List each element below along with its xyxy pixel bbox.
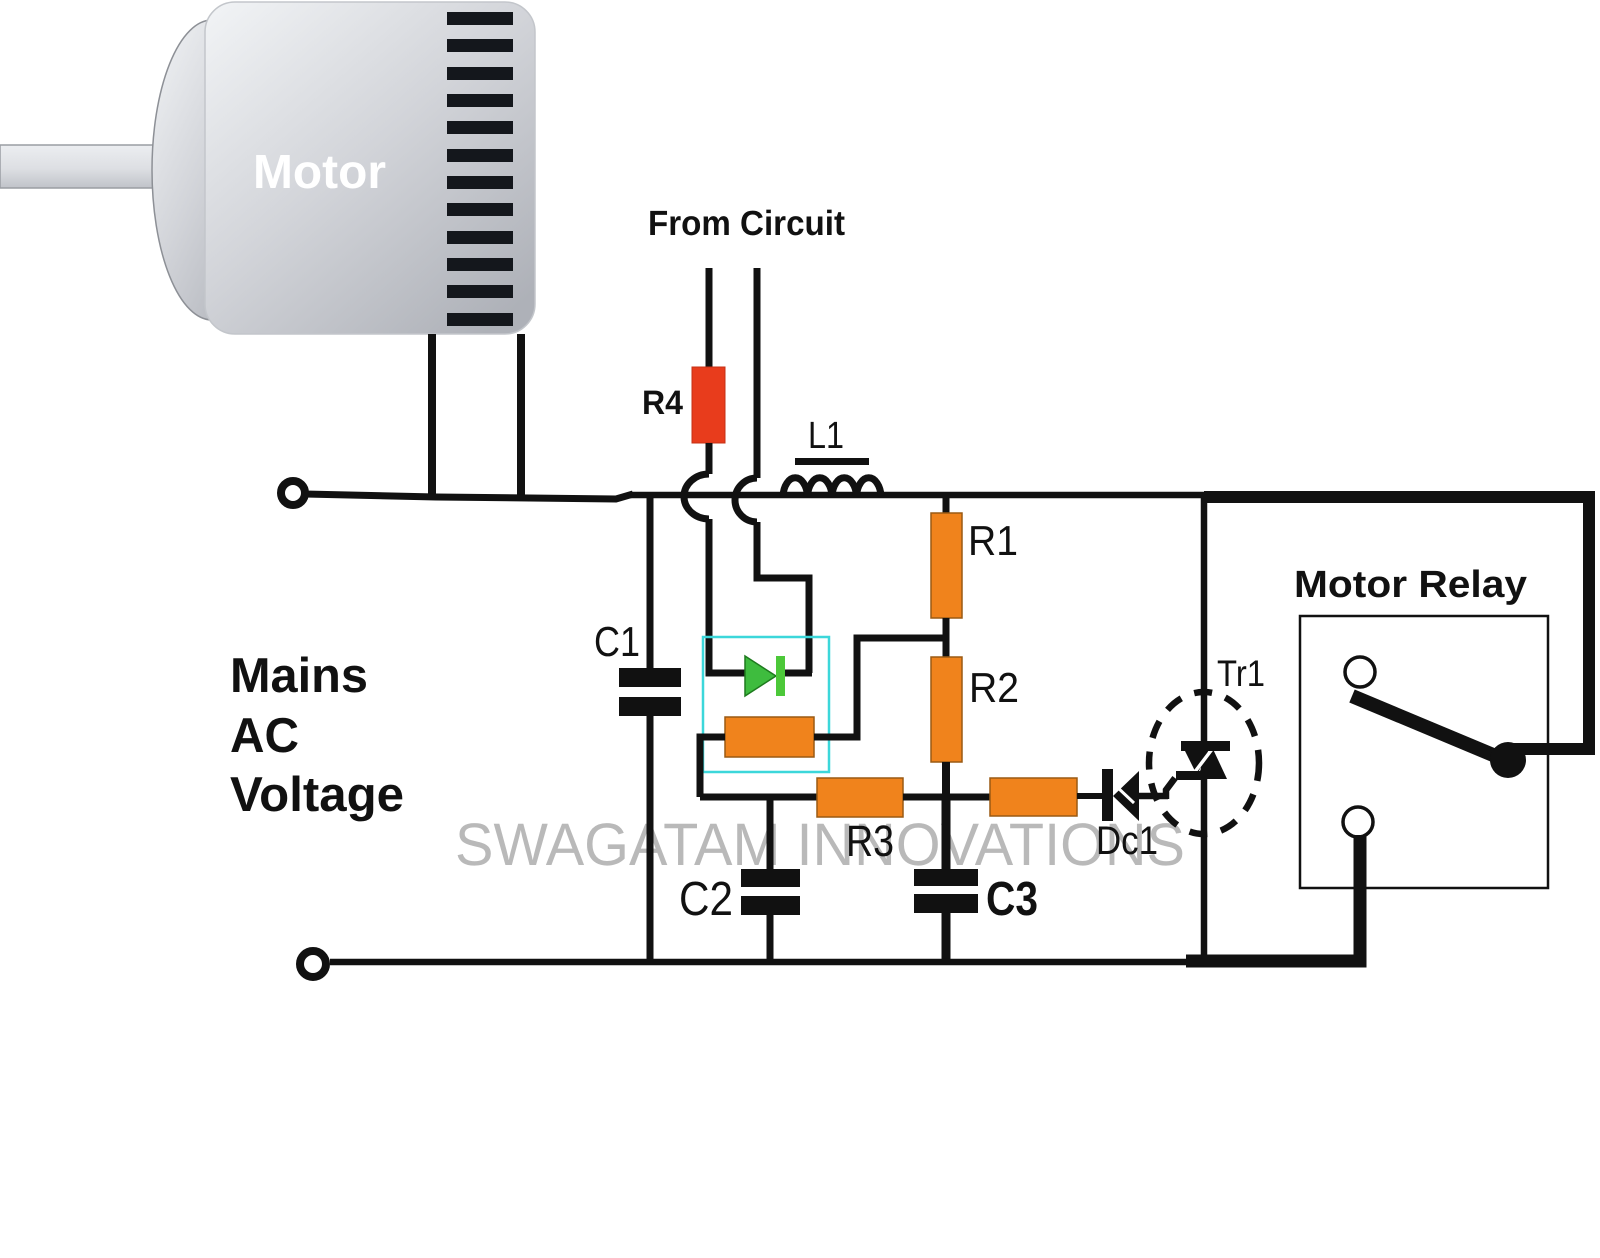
wire relay feed thick bbox=[1204, 497, 1589, 749]
wire C2 tap bbox=[767, 797, 774, 869]
triac Tr1 symbol bbox=[1181, 743, 1212, 775]
motor body bbox=[205, 2, 535, 334]
svg-text:Motor: Motor bbox=[253, 146, 386, 199]
wire main top line bbox=[630, 492, 1204, 499]
resistor R1 bbox=[931, 513, 962, 618]
svg-text:C3: C3 bbox=[986, 873, 1038, 926]
wire R2 down to R3 row bbox=[942, 762, 950, 800]
capacitor C1 bbox=[619, 668, 681, 687]
wire motor left lead bbox=[428, 334, 436, 495]
svg-text:C2: C2 bbox=[679, 873, 733, 926]
resistor R5 bbox=[725, 717, 814, 757]
wire R4 to hop bbox=[706, 443, 713, 474]
capacitor C2 bbox=[741, 869, 800, 887]
resistor R6 bbox=[990, 778, 1077, 816]
wire from-circuit lead 2 bbox=[754, 268, 761, 478]
wire from-circuit lead 1 bbox=[706, 268, 713, 367]
wire motor right lead bbox=[517, 334, 525, 498]
svg-text:SWAGATAM INNOVATIONS: SWAGATAM INNOVATIONS bbox=[455, 811, 1185, 878]
relay box bbox=[1300, 616, 1548, 888]
diode D1 green bbox=[745, 656, 776, 696]
motor vent stripes bbox=[447, 12, 513, 326]
wire hop 1 over main line bbox=[684, 474, 709, 519]
relay bottom contact bbox=[1343, 807, 1373, 837]
svg-text:Tr1: Tr1 bbox=[1217, 653, 1265, 694]
svg-text:R2: R2 bbox=[969, 664, 1019, 711]
wire R1 to R2 bbox=[943, 618, 950, 657]
diode Dc1 bbox=[1102, 769, 1113, 821]
wire main line to R1 bbox=[943, 495, 950, 513]
svg-text:Dc1: Dc1 bbox=[1096, 819, 1158, 863]
relay arm pivot dot bbox=[1490, 742, 1526, 778]
svg-text:Voltage: Voltage bbox=[230, 768, 404, 822]
wire hop1 down to diode anode bbox=[709, 519, 745, 673]
svg-text:L1: L1 bbox=[808, 415, 844, 457]
wire R5 left down to R3 row bbox=[700, 737, 725, 797]
capacitor C3 bbox=[914, 869, 978, 886]
terminal bottom left bbox=[300, 951, 326, 977]
wire C3 to bottom bbox=[942, 913, 951, 962]
wire relay bottom return bbox=[1186, 835, 1360, 961]
wire R3 row middle segment bbox=[903, 794, 990, 801]
svg-text:AC: AC bbox=[230, 709, 299, 763]
relay arm bbox=[1352, 696, 1505, 760]
svg-text:R4: R4 bbox=[642, 384, 683, 422]
wire hop 2 over main line bbox=[735, 478, 757, 522]
svg-text:C1: C1 bbox=[594, 618, 640, 665]
inductor L1 bar bbox=[795, 458, 869, 465]
wire C1 to bottom line bbox=[647, 716, 654, 962]
resistor R3 bbox=[817, 778, 903, 817]
wire R5 right up to R1R2 node bbox=[814, 638, 946, 737]
wire main line to C1 bbox=[647, 495, 654, 668]
terminal top left bbox=[281, 481, 305, 505]
motor shaft bbox=[0, 145, 165, 188]
svg-text:Mains: Mains bbox=[230, 649, 368, 703]
svg-text:From Circuit: From Circuit bbox=[648, 204, 845, 243]
svg-text:Motor Relay: Motor Relay bbox=[1294, 564, 1527, 606]
wire R6 to Dc1 bbox=[1077, 793, 1102, 799]
wire C2 to bottom bbox=[767, 915, 774, 962]
wire bottom line bbox=[330, 959, 1204, 966]
relay top contact bbox=[1345, 657, 1375, 687]
wire right vertical main bbox=[1201, 495, 1208, 962]
wire hop2 jog to diode cathode bbox=[757, 522, 812, 673]
resistor R4 bbox=[692, 367, 725, 443]
motor back ellipse bbox=[152, 20, 272, 320]
wire R2C3 vertical bbox=[942, 797, 951, 869]
inductor L1 coil bbox=[783, 478, 881, 496]
box around opto bbox=[703, 637, 829, 772]
wire Dc1 to gate bbox=[1139, 793, 1168, 800]
svg-text:R3: R3 bbox=[846, 817, 894, 866]
svg-text:R1: R1 bbox=[968, 517, 1018, 564]
triac Tr1 dashed circle bbox=[1149, 692, 1259, 834]
resistor R2 bbox=[931, 657, 962, 762]
wire R3 row left segment bbox=[700, 794, 817, 801]
wire top terminal to main line bbox=[305, 494, 633, 499]
